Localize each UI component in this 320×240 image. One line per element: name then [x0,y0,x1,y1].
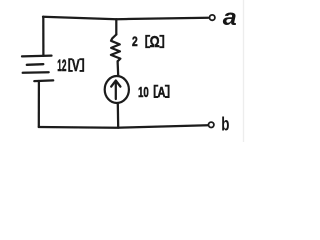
wire source to bottom rail [117,104,120,128]
svg-text:12: 12 [57,56,66,75]
wire left vertical upper [42,17,44,56]
wire middle branch top [115,19,117,34]
svg-text:10: 10 [138,84,149,101]
current source I (10 A) circle [105,76,129,103]
battery 12V plate long lower [23,71,49,74]
wire left vertical lower [38,81,40,127]
terminal b circle [209,122,214,127]
wire bottom rail [39,125,208,128]
terminal a circle [210,15,215,20]
svg-text:2: 2 [132,34,138,49]
svg-text:a: a [223,4,237,30]
svg-text:A: A [158,84,166,101]
current source arrow [115,82,117,99]
battery 12V plate short upper [27,63,44,66]
wire top rail [43,17,208,19]
svg-text:b: b [221,114,229,135]
battery 12V plate long top [22,54,52,57]
scanner artifact faint line [243,0,245,142]
wire resistor to source [116,61,119,75]
svg-text:V: V [72,56,80,75]
resistor R (2 ohm) zigzag [111,35,121,62]
svg-text:Ω: Ω [150,34,160,51]
battery 12V plate short bottom [34,79,53,82]
